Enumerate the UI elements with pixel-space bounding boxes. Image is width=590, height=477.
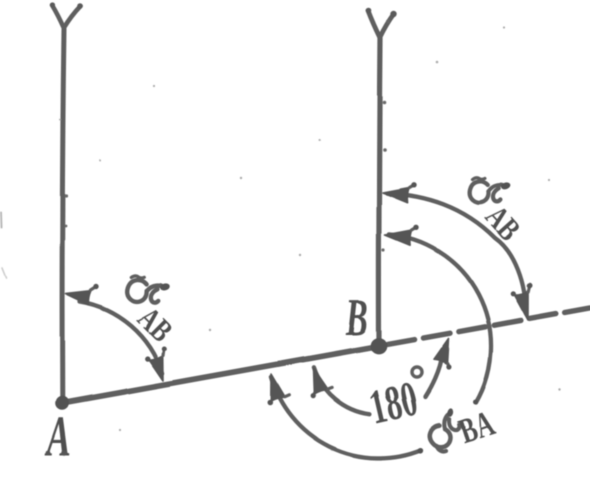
point A (station dot) (55, 396, 69, 410)
ink blob at arc end (418, 448, 424, 454)
label alpha_AB at A : script alpha (126, 275, 172, 306)
ink blob at arc end (473, 399, 478, 404)
arc alpha_BA part 2 (from label gap to line BA) (271, 377, 421, 458)
speckle noise dots (59, 27, 561, 431)
north arrow (V) at A (52, 5, 81, 28)
arrowhead of alpha_BA arc at meridian B (385, 230, 412, 245)
line AB (62, 346, 379, 403)
svg-text:B: B (345, 288, 368, 347)
label alpha_AB at B : script alpha (469, 177, 512, 204)
svg-text:180: 180 (364, 370, 422, 434)
dashed extension of AB beyond B (388, 308, 590, 344)
arc 180deg part 2 (arrow from label to dashed line) (425, 360, 441, 397)
meridian line at B (379, 38, 380, 344)
degree symbol of 180 (412, 368, 422, 378)
arrowhead of 180deg arc at line BA (313, 368, 328, 394)
svg-text:AB: AB (130, 301, 178, 349)
arc 180deg part 1 (from line BA under B to label gap) (313, 367, 369, 414)
arrowhead of 180deg arc at dashed line (434, 339, 449, 365)
scan artifact: faint mark left edge (0, 213, 3, 228)
svg-text:AB: AB (478, 200, 526, 248)
north arrow (V) at B (368, 11, 394, 38)
arrowhead of alpha_AB arc at meridian A (66, 291, 92, 305)
ink nubs on meridian A (64, 194, 67, 197)
arrowhead of alpha_AB arc at meridian B (383, 188, 410, 203)
arc alpha_AB at A (80, 302, 163, 374)
ink blobs at feet of label A (46, 450, 51, 455)
svg-text:BA: BA (454, 403, 499, 451)
arrowhead of alpha_AB arc at line AB (149, 355, 163, 380)
arc alpha_AB at B (between meridian B and dashed extension) (387, 193, 526, 314)
arrowhead of alpha_AB arc at dashed line (514, 292, 528, 321)
meridian line at A (62, 28, 64, 401)
svg-text:A: A (44, 405, 71, 468)
point B (station dot) (371, 338, 388, 355)
label alpha_BA : bottom tail of alpha (437, 446, 447, 451)
label alpha_BA : script alpha (425, 406, 468, 451)
ink nubs on meridian B (382, 101, 386, 105)
arc alpha_BA part 1 (from meridian B clockwise to label gap) (389, 234, 491, 402)
scan artifact: faint diagonal bottom-left (2, 268, 6, 278)
arrowhead of alpha_BA arc at line BA (271, 374, 285, 401)
